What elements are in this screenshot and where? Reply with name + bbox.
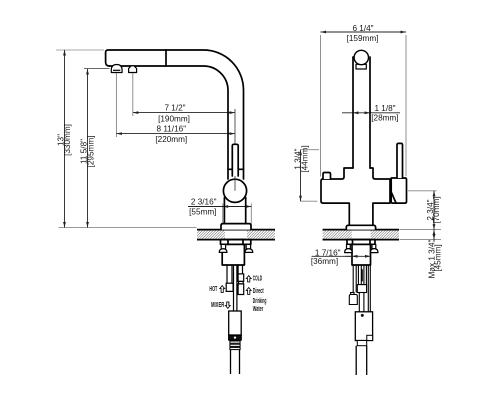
- svg-text:[55mm]: [55mm]: [189, 207, 216, 216]
- svg-text:MIXER: MIXER: [211, 302, 225, 309]
- svg-text:[36mm]: [36mm]: [311, 257, 338, 266]
- svg-text:[70mm]: [70mm]: [432, 196, 441, 223]
- svg-text:[295mm]: [295mm]: [86, 136, 95, 168]
- svg-text:COLD: COLD: [253, 275, 262, 283]
- svg-text:[28mm]: [28mm]: [371, 113, 398, 122]
- svg-text:8 11/16": 8 11/16": [156, 125, 186, 134]
- svg-text:HOT: HOT: [209, 286, 217, 293]
- svg-text:[190mm]: [190mm]: [158, 115, 190, 124]
- svg-text:2 3/16": 2 3/16": [191, 198, 217, 207]
- svg-text:7 1/2": 7 1/2": [164, 104, 185, 113]
- svg-text:[45mm]: [45mm]: [434, 244, 443, 271]
- svg-text:1 1/8": 1 1/8": [374, 104, 395, 113]
- svg-text:[159mm]: [159mm]: [347, 34, 379, 43]
- svg-text:Drinking: Drinking: [253, 298, 267, 306]
- svg-text:6 1/4": 6 1/4": [352, 24, 373, 33]
- svg-text:1 7/16": 1 7/16": [315, 248, 341, 257]
- svg-text:[44mm]: [44mm]: [300, 145, 309, 172]
- svg-text:Direct: Direct: [253, 288, 264, 295]
- svg-text:[330mm]: [330mm]: [63, 124, 72, 156]
- svg-text:[220mm]: [220mm]: [155, 135, 187, 144]
- svg-text:Water: Water: [253, 306, 264, 313]
